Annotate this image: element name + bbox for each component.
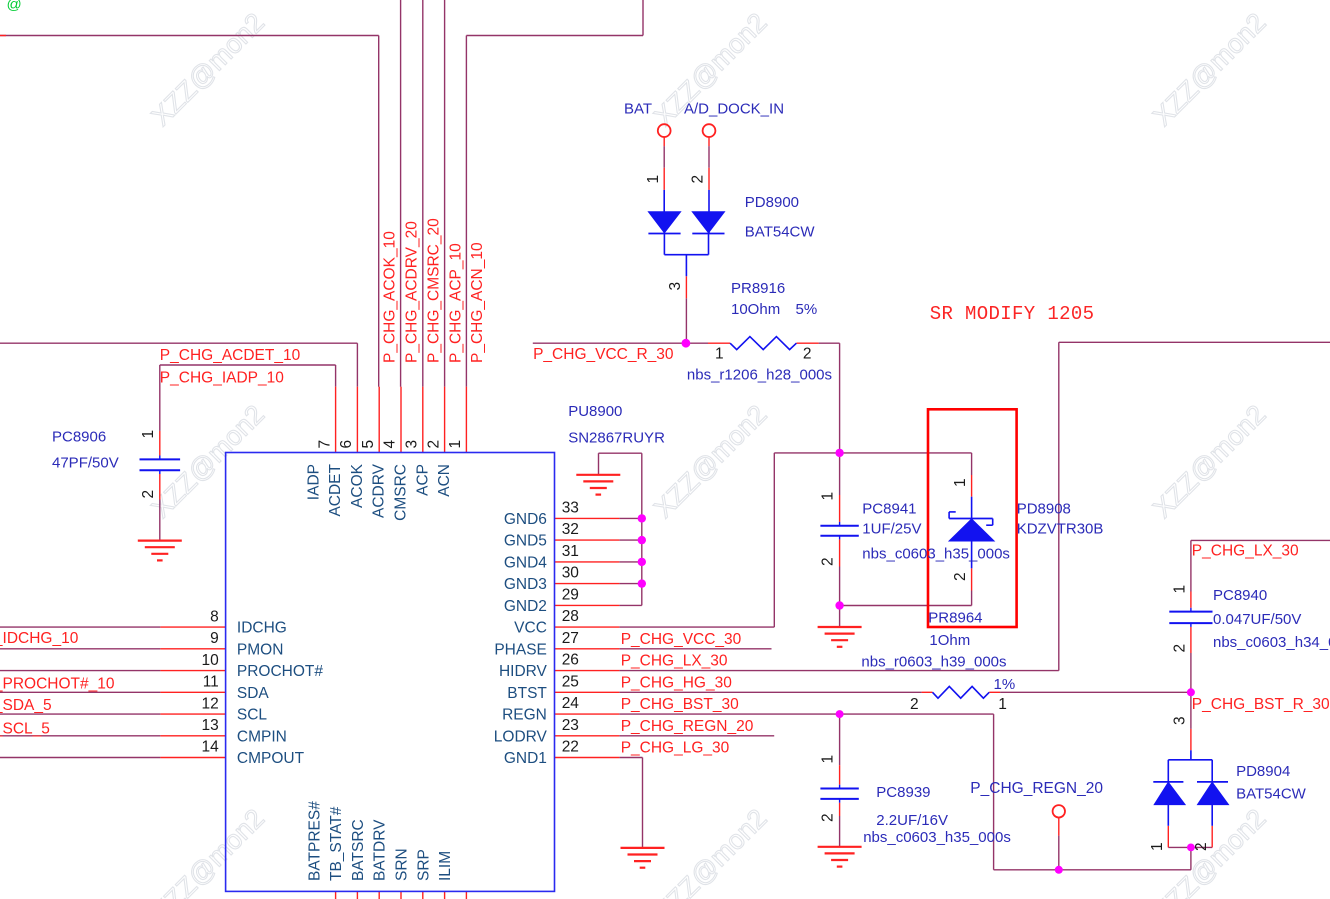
svg-text:P_CHG_LG_30: P_CHG_LG_30 bbox=[621, 740, 730, 757]
svg-text:22: 22 bbox=[562, 739, 579, 756]
svg-text:nbs_r1206_h28_000s: nbs_r1206_h28_000s bbox=[687, 366, 832, 383]
svg-text:4: 4 bbox=[382, 440, 399, 449]
svg-text:9: 9 bbox=[210, 630, 219, 647]
svg-text:7: 7 bbox=[316, 440, 333, 449]
svg-text:TB_STAT#: TB_STAT# bbox=[328, 806, 345, 881]
svg-text:BTST: BTST bbox=[507, 685, 547, 702]
svg-text:30: 30 bbox=[562, 565, 580, 582]
svg-text:2: 2 bbox=[910, 696, 919, 713]
svg-text:1: 1 bbox=[820, 492, 837, 501]
svg-text:BATDRV: BATDRV bbox=[372, 819, 389, 881]
svg-text:XZZ@mon2: XZZ@mon2 bbox=[648, 803, 772, 899]
svg-text:PR8964: PR8964 bbox=[928, 610, 982, 627]
svg-text:PR8916: PR8916 bbox=[731, 280, 785, 297]
svg-text:PD8900: PD8900 bbox=[745, 194, 799, 211]
svg-text:nbs_c0603_h35_000s: nbs_c0603_h35_000s bbox=[863, 829, 1011, 846]
svg-text:GND1: GND1 bbox=[504, 750, 547, 767]
svg-text:ACN: ACN bbox=[436, 464, 453, 497]
svg-text:SR MODIFY 1205: SR MODIFY 1205 bbox=[930, 303, 1095, 325]
svg-text:6: 6 bbox=[338, 440, 355, 449]
svg-text:2: 2 bbox=[820, 813, 837, 822]
svg-text:XZZ@mon2: XZZ@mon2 bbox=[146, 7, 270, 131]
svg-text:P_CHG_ACDET_10: P_CHG_ACDET_10 bbox=[160, 347, 301, 364]
svg-text:1UF/25V: 1UF/25V bbox=[862, 520, 921, 537]
svg-text:ACP: ACP bbox=[414, 464, 431, 496]
svg-text:nbs_r0603_h39_000s: nbs_r0603_h39_000s bbox=[861, 654, 1006, 671]
svg-text:PD8904: PD8904 bbox=[1236, 763, 1290, 780]
svg-text:P_CHG_IDCHG_10: P_CHG_IDCHG_10 bbox=[0, 630, 79, 647]
svg-text:ILIM: ILIM bbox=[437, 851, 454, 881]
svg-text:1: 1 bbox=[715, 346, 724, 363]
svg-text:1: 1 bbox=[447, 440, 464, 449]
svg-text:P_CHG_ACDRV_20: P_CHG_ACDRV_20 bbox=[403, 221, 420, 363]
svg-text:P_CHG_CMSRC_20: P_CHG_CMSRC_20 bbox=[426, 218, 443, 363]
svg-text:SRN: SRN bbox=[394, 848, 411, 881]
svg-text:14: 14 bbox=[202, 739, 220, 756]
svg-text:2: 2 bbox=[820, 557, 837, 566]
svg-text:CMSRC: CMSRC bbox=[393, 464, 410, 521]
svg-text:2: 2 bbox=[1172, 644, 1189, 653]
svg-text:23: 23 bbox=[562, 717, 579, 734]
svg-text:1: 1 bbox=[998, 696, 1007, 713]
svg-text:XZZ@mon2: XZZ@mon2 bbox=[648, 399, 772, 523]
svg-text:26: 26 bbox=[562, 652, 579, 669]
svg-text:GND6: GND6 bbox=[504, 511, 547, 528]
svg-text:2: 2 bbox=[803, 346, 812, 363]
svg-text:28: 28 bbox=[562, 608, 579, 625]
svg-text:P_CHG_ACP_10: P_CHG_ACP_10 bbox=[447, 243, 464, 363]
svg-text:12: 12 bbox=[202, 695, 219, 712]
svg-text:PMON: PMON bbox=[237, 641, 284, 658]
svg-text:3: 3 bbox=[1172, 716, 1189, 725]
svg-text:IADP: IADP bbox=[305, 464, 322, 500]
svg-text:33: 33 bbox=[562, 499, 579, 516]
svg-text:1: 1 bbox=[645, 175, 662, 184]
svg-text:HIDRV: HIDRV bbox=[499, 663, 548, 680]
svg-text:P_CHG_VCC_30: P_CHG_VCC_30 bbox=[621, 631, 742, 648]
svg-text:BAT: BAT bbox=[624, 101, 652, 118]
svg-text:10Ohm: 10Ohm bbox=[731, 301, 780, 318]
svg-text:5: 5 bbox=[360, 440, 377, 449]
svg-text:PC8940: PC8940 bbox=[1213, 587, 1267, 604]
svg-text:24: 24 bbox=[562, 695, 580, 712]
svg-text:3: 3 bbox=[404, 440, 421, 449]
svg-text:GND3: GND3 bbox=[504, 576, 547, 593]
svg-text:GND5: GND5 bbox=[504, 533, 547, 550]
svg-text:2: 2 bbox=[952, 572, 969, 581]
svg-text:32: 32 bbox=[562, 521, 579, 538]
svg-text:BAT54CW: BAT54CW bbox=[1236, 786, 1307, 803]
svg-text:1: 1 bbox=[820, 755, 837, 764]
svg-text:GND2: GND2 bbox=[504, 598, 547, 615]
svg-text:8: 8 bbox=[210, 608, 219, 625]
svg-text:P_CHG_ACN_10: P_CHG_ACN_10 bbox=[469, 242, 486, 363]
svg-text:27: 27 bbox=[562, 630, 579, 647]
svg-text:nbs_c0603_h34_000s: nbs_c0603_h34_000s bbox=[1213, 634, 1330, 651]
svg-text:IDCHG: IDCHG bbox=[237, 620, 287, 637]
svg-text:2: 2 bbox=[425, 440, 442, 449]
svg-text:47PF/50V: 47PF/50V bbox=[52, 455, 119, 472]
svg-text:P_CHG_IADP_10: P_CHG_IADP_10 bbox=[160, 370, 284, 387]
svg-text:XZZ@mon2: XZZ@mon2 bbox=[146, 399, 270, 523]
svg-text:PROCHOT#: PROCHOT# bbox=[237, 663, 324, 680]
svg-text:P_CHG_SDA_5: P_CHG_SDA_5 bbox=[0, 697, 52, 714]
svg-text:BATSRC: BATSRC bbox=[350, 819, 367, 881]
svg-text:PD8908: PD8908 bbox=[1017, 501, 1071, 518]
svg-text:CMPOUT: CMPOUT bbox=[237, 750, 305, 767]
svg-text:BAT54CW: BAT54CW bbox=[745, 223, 816, 240]
svg-text:3: 3 bbox=[667, 282, 684, 291]
svg-text:GND4: GND4 bbox=[504, 555, 547, 572]
svg-text:2: 2 bbox=[689, 175, 706, 184]
svg-text:25: 25 bbox=[562, 673, 579, 690]
svg-text:29: 29 bbox=[562, 586, 579, 603]
svg-text:XZZ@mon2: XZZ@mon2 bbox=[1147, 399, 1271, 523]
svg-text:10: 10 bbox=[202, 652, 220, 669]
svg-text:@: @ bbox=[7, 0, 22, 13]
svg-text:ACOK: ACOK bbox=[349, 463, 366, 508]
svg-text:5%: 5% bbox=[796, 301, 818, 318]
svg-text:SDA: SDA bbox=[237, 685, 270, 702]
svg-text:P_CHG_BST_R_30: P_CHG_BST_R_30 bbox=[1192, 696, 1330, 713]
svg-text:1: 1 bbox=[1149, 842, 1166, 851]
svg-text:P_CHG_REGN_20: P_CHG_REGN_20 bbox=[621, 718, 754, 735]
svg-text:1: 1 bbox=[952, 478, 969, 487]
svg-text:P_CHG_VCC_R_30: P_CHG_VCC_R_30 bbox=[533, 346, 674, 363]
svg-text:LODRV: LODRV bbox=[494, 728, 548, 745]
svg-text:SN2867RUYR: SN2867RUYR bbox=[568, 430, 665, 447]
svg-text:0.047UF/50V: 0.047UF/50V bbox=[1213, 611, 1301, 628]
svg-text:SCL: SCL bbox=[237, 707, 268, 724]
svg-text:PU8900: PU8900 bbox=[568, 403, 622, 420]
svg-text:REGN: REGN bbox=[502, 707, 547, 724]
svg-text:1: 1 bbox=[140, 430, 157, 439]
svg-text:P_CHG_LX_30: P_CHG_LX_30 bbox=[621, 653, 728, 670]
svg-text:31: 31 bbox=[562, 543, 579, 560]
svg-text:PC8941: PC8941 bbox=[862, 501, 916, 518]
svg-text:nbs_c0603_h35_000s: nbs_c0603_h35_000s bbox=[862, 545, 1010, 562]
svg-text:ACDET: ACDET bbox=[327, 463, 344, 516]
svg-text:2: 2 bbox=[1193, 842, 1210, 851]
svg-text:1%: 1% bbox=[994, 676, 1016, 693]
svg-text:P_CHG_ACOK_10: P_CHG_ACOK_10 bbox=[382, 231, 399, 363]
svg-text:2.2UF/16V: 2.2UF/16V bbox=[876, 812, 948, 829]
svg-text:ACDRV: ACDRV bbox=[371, 463, 388, 518]
svg-text:P_CHG_SCL_5: P_CHG_SCL_5 bbox=[0, 721, 50, 738]
svg-text:SRP: SRP bbox=[415, 849, 432, 881]
svg-text:13: 13 bbox=[202, 717, 219, 734]
svg-text:2: 2 bbox=[140, 490, 157, 499]
svg-text:VCC: VCC bbox=[514, 620, 547, 637]
svg-text:A/D_DOCK_IN: A/D_DOCK_IN bbox=[684, 101, 784, 118]
svg-text:PC8939: PC8939 bbox=[876, 784, 930, 801]
svg-text:XZZ@mon2: XZZ@mon2 bbox=[146, 803, 270, 899]
svg-text:P_CHG_BST_30: P_CHG_BST_30 bbox=[621, 696, 739, 713]
svg-text:P_CHG_LX_30: P_CHG_LX_30 bbox=[1192, 542, 1299, 559]
svg-text:1Ohm: 1Ohm bbox=[929, 632, 970, 649]
svg-text:PHASE: PHASE bbox=[494, 641, 547, 658]
svg-text:P_CHG_REGN_20: P_CHG_REGN_20 bbox=[970, 780, 1103, 797]
svg-text:CMPIN: CMPIN bbox=[237, 728, 287, 745]
svg-text:P_CHG_PROCHOT#_10: P_CHG_PROCHOT#_10 bbox=[0, 675, 115, 692]
svg-text:1: 1 bbox=[1172, 585, 1189, 594]
svg-text:P_CHG_HG_30: P_CHG_HG_30 bbox=[621, 674, 733, 691]
svg-text:11: 11 bbox=[203, 674, 219, 691]
svg-text:XZZ@mon2: XZZ@mon2 bbox=[1147, 7, 1271, 131]
svg-text:KDZVTR30B: KDZVTR30B bbox=[1017, 520, 1104, 537]
svg-text:BATPRES#: BATPRES# bbox=[306, 801, 323, 881]
svg-text:PC8906: PC8906 bbox=[52, 429, 106, 446]
